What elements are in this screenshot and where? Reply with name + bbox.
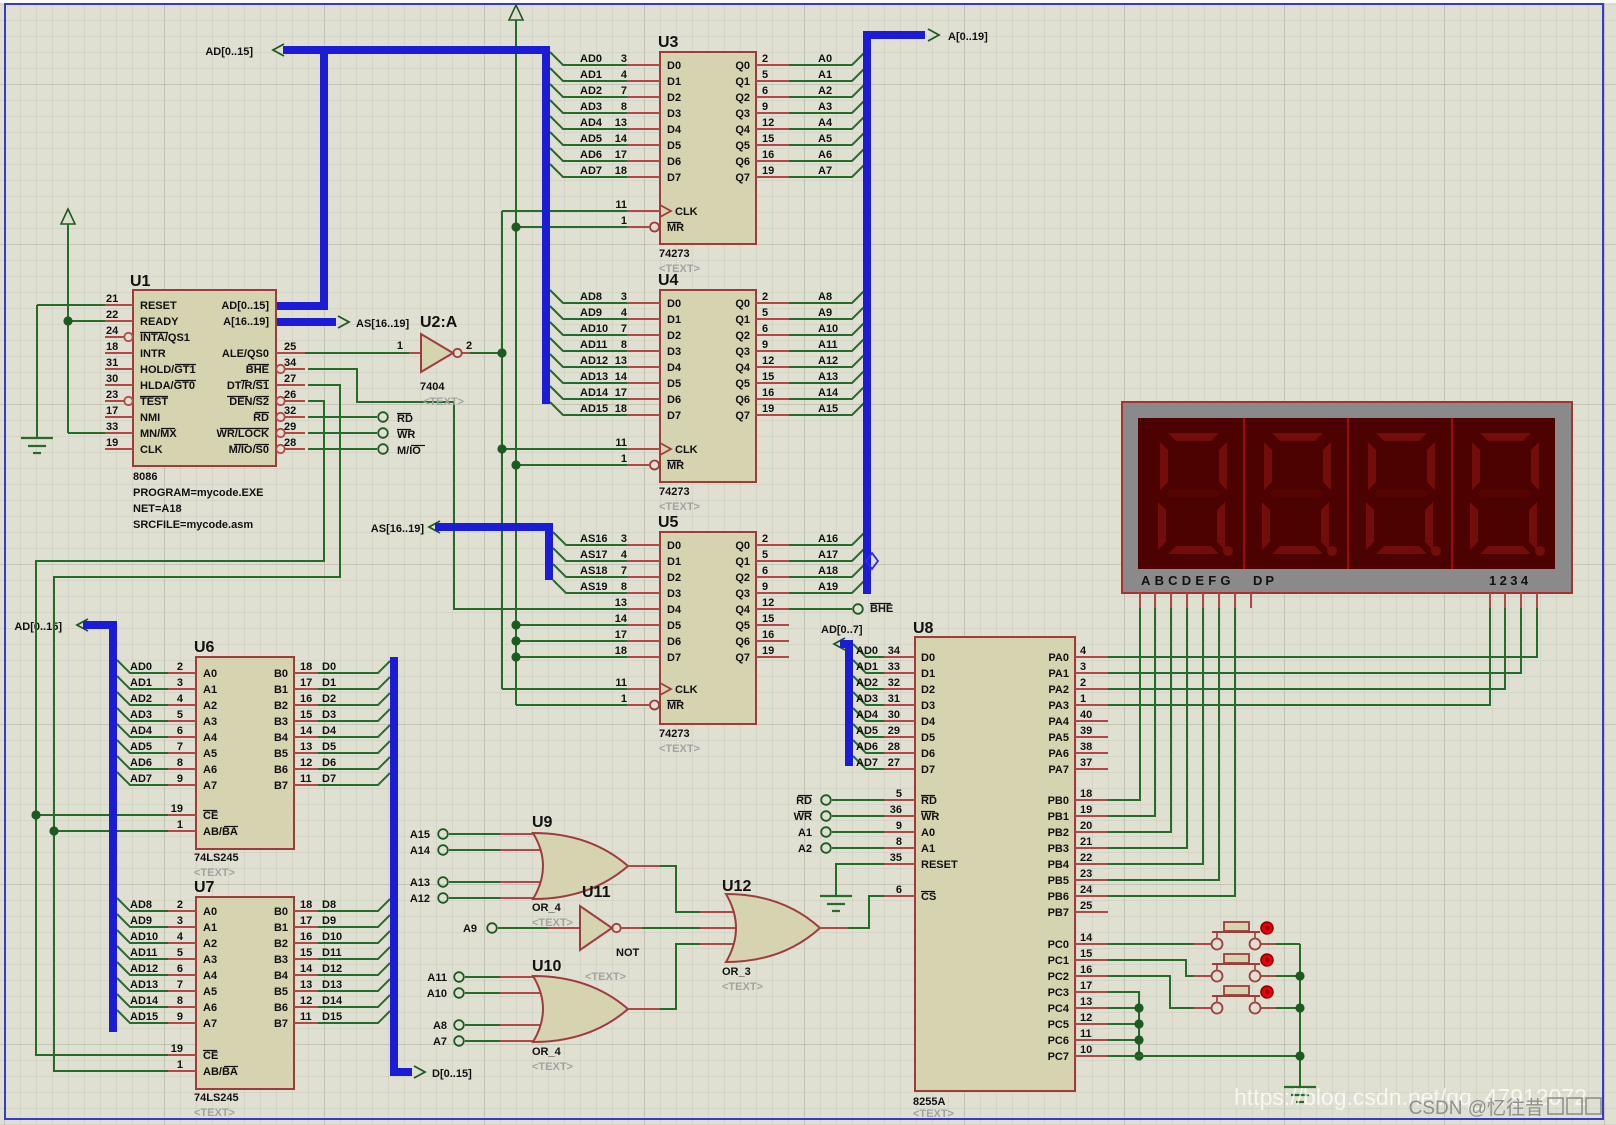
terminal A7 [433, 1036, 464, 1048]
svg-text:D3: D3 [921, 700, 935, 712]
svg-text:NET=A18: NET=A18 [133, 503, 182, 515]
svg-text:D2: D2 [667, 572, 681, 584]
svg-text:19: 19 [106, 437, 118, 449]
button SW3 [1212, 986, 1274, 1014]
svg-text:A16: A16 [818, 533, 838, 545]
svg-text:5: 5 [762, 69, 768, 81]
svg-text:U10: U10 [532, 958, 561, 975]
ground at button rail [1284, 1087, 1316, 1102]
svg-text:U2:A: U2:A [420, 314, 458, 331]
svg-text:9: 9 [762, 339, 768, 351]
svg-text:D7: D7 [667, 172, 681, 184]
svg-text:22: 22 [106, 309, 118, 321]
svg-text:31: 31 [106, 357, 118, 369]
svg-text:7: 7 [177, 979, 183, 991]
svg-text:5: 5 [896, 788, 902, 800]
svg-text:Q3: Q3 [735, 108, 750, 120]
svg-text:D0: D0 [667, 298, 681, 310]
svg-text:<TEXT>: <TEXT> [423, 396, 464, 408]
svg-text:3: 3 [621, 53, 627, 65]
node bus-entry marker near A17 [866, 553, 878, 569]
svg-text:D8: D8 [322, 899, 336, 911]
svg-text:PB3: PB3 [1048, 843, 1069, 855]
terminal A9 [463, 923, 497, 935]
svg-text:37: 37 [1080, 757, 1092, 769]
svg-text:B6: B6 [274, 1002, 288, 1014]
svg-text:11: 11 [1080, 1028, 1092, 1040]
processor U1 8086 [105, 273, 305, 531]
svg-text:AD13: AD13 [130, 979, 158, 991]
wire U10 output to U12 input 3 [628, 944, 740, 1009]
svg-text:AD6: AD6 [130, 757, 152, 769]
latch U4 74273 [580, 272, 839, 513]
svg-text:AD0: AD0 [580, 53, 602, 65]
svg-text:D15: D15 [322, 1011, 342, 1023]
svg-text:B3: B3 [274, 954, 288, 966]
wire A7 to U10 [465, 1040, 500, 1042]
svg-text:D0: D0 [921, 652, 935, 664]
svg-text:8: 8 [896, 836, 902, 848]
svg-text:Q7: Q7 [735, 652, 750, 664]
terminal A2 near U8 [798, 843, 831, 855]
wire DT/R from U1 to U6/U7 AB/BA [49, 385, 340, 1071]
svg-text:D4: D4 [322, 725, 337, 737]
svg-text:A14: A14 [818, 387, 839, 399]
svg-text:OR_4: OR_4 [532, 902, 562, 914]
svg-text:RD: RD [921, 795, 937, 807]
svg-text:A[0..19]: A[0..19] [948, 31, 988, 43]
svg-text:Q2: Q2 [735, 330, 750, 342]
svg-text:4: 4 [177, 693, 184, 705]
svg-text:9: 9 [896, 820, 902, 832]
svg-text:RD: RD [253, 412, 269, 424]
svg-text:PA5: PA5 [1048, 732, 1069, 744]
svg-text:7: 7 [177, 741, 183, 753]
svg-text:14: 14 [300, 725, 313, 737]
svg-text:14: 14 [615, 613, 628, 625]
terminal A14 [410, 845, 448, 857]
svg-text:29: 29 [284, 421, 296, 433]
svg-text:19: 19 [762, 645, 774, 657]
svg-text:30: 30 [888, 709, 900, 721]
svg-text:A9: A9 [818, 307, 832, 319]
svg-text:13: 13 [1080, 996, 1092, 1008]
svg-text:1: 1 [621, 215, 627, 227]
svg-text:3: 3 [1080, 661, 1086, 673]
svg-text:PB5: PB5 [1048, 875, 1069, 887]
svg-text:U3: U3 [658, 34, 679, 51]
svg-text:32: 32 [888, 677, 900, 689]
svg-text:12: 12 [300, 757, 312, 769]
svg-text:<TEXT>: <TEXT> [722, 981, 763, 993]
wire U5 input taps from AS bus [553, 532, 627, 593]
svg-text:Q7: Q7 [735, 172, 750, 184]
wire U11 output to U12 input 2 [642, 927, 740, 929]
svg-text:21: 21 [1080, 836, 1092, 848]
svg-text:AD[0..7]: AD[0..7] [821, 624, 863, 636]
svg-text:D1: D1 [667, 314, 681, 326]
svg-text:AD2: AD2 [856, 677, 878, 689]
svg-text:A2: A2 [203, 938, 217, 950]
svg-text:AD4: AD4 [580, 117, 603, 129]
svg-text:74273: 74273 [659, 248, 690, 260]
wire display segment A-G to U8 PB0-PB6 [1108, 608, 1235, 896]
svg-text:74LS245: 74LS245 [194, 852, 239, 864]
bus overlay for crossings [83, 35, 925, 1072]
svg-text:A17: A17 [818, 549, 838, 561]
svg-text:Q2: Q2 [735, 92, 750, 104]
svg-text:1: 1 [621, 453, 627, 465]
transceiver U6 74LS245 [130, 639, 337, 879]
bus A[0..19] right vertical (latch outputs) [867, 29, 988, 594]
svg-text:<TEXT>: <TEXT> [194, 867, 235, 879]
svg-text:15: 15 [300, 947, 312, 959]
svg-text:AD7: AD7 [130, 773, 152, 785]
svg-text:AS[16..19]: AS[16..19] [356, 318, 410, 330]
svg-text:MR: MR [667, 222, 684, 234]
svg-text:D0: D0 [667, 540, 681, 552]
svg-text:Q5: Q5 [735, 620, 750, 632]
svg-text:B4: B4 [274, 732, 289, 744]
svg-text:RESET: RESET [140, 300, 177, 312]
svg-text:D4: D4 [667, 124, 682, 136]
svg-text:AD13: AD13 [580, 371, 608, 383]
svg-text:18: 18 [615, 645, 627, 657]
svg-text:18: 18 [300, 661, 312, 673]
svg-text:24: 24 [106, 325, 119, 337]
svg-text:U8: U8 [913, 620, 934, 637]
svg-text:25: 25 [1080, 900, 1092, 912]
svg-text:2: 2 [762, 53, 768, 65]
wire A9 to U11 [498, 927, 548, 929]
svg-text:PC4: PC4 [1048, 1003, 1070, 1015]
svg-text:1: 1 [621, 693, 627, 705]
svg-text:A11: A11 [818, 339, 838, 351]
svg-text:AD2: AD2 [580, 85, 602, 97]
svg-text:16: 16 [300, 693, 312, 705]
svg-text:D5: D5 [921, 732, 935, 744]
svg-text:<TEXT>: <TEXT> [585, 971, 626, 983]
svg-text:INTR: INTR [140, 348, 166, 360]
svg-text:4: 4 [621, 307, 628, 319]
svg-text:PROGRAM=mycode.EXE: PROGRAM=mycode.EXE [133, 487, 264, 499]
svg-text:A2: A2 [798, 843, 812, 855]
svg-text:17: 17 [300, 677, 312, 689]
svg-text:Q1: Q1 [735, 314, 750, 326]
wire U8 PC7 to button common and ground [1108, 1055, 1300, 1057]
svg-text:7: 7 [621, 323, 627, 335]
svg-text:AD6: AD6 [856, 741, 878, 753]
svg-text:B2: B2 [274, 938, 288, 950]
svg-text:16: 16 [762, 387, 774, 399]
svg-text:D1: D1 [667, 556, 681, 568]
svg-text:19: 19 [762, 403, 774, 415]
svg-text:PC0: PC0 [1048, 939, 1069, 951]
svg-text:AD11: AD11 [130, 947, 158, 959]
svg-text:TEST: TEST [140, 396, 168, 408]
svg-text:11: 11 [615, 199, 627, 211]
svg-text:28: 28 [888, 741, 900, 753]
svg-text:D0: D0 [667, 60, 681, 72]
svg-text:RESET: RESET [921, 859, 958, 871]
svg-text:AD15: AD15 [580, 403, 608, 415]
svg-text:WR: WR [921, 811, 939, 823]
svg-text:Q5: Q5 [735, 140, 750, 152]
svg-text:A0: A0 [203, 906, 217, 918]
svg-text:2: 2 [177, 661, 183, 673]
bus AS[16..19] to U5 inputs [371, 521, 549, 580]
svg-text:A7: A7 [433, 1036, 447, 1048]
svg-text:A19: A19 [818, 581, 838, 593]
svg-text:4: 4 [621, 69, 628, 81]
wire U5 output taps to A bus [789, 533, 864, 593]
wire U1 RESET to ground [37, 305, 105, 438]
svg-text:1: 1 [1080, 693, 1086, 705]
ground at U1 RESET [21, 438, 53, 453]
terminal RD near U8 [796, 795, 831, 807]
svg-text:PB2: PB2 [1048, 827, 1069, 839]
svg-text:21: 21 [106, 293, 118, 305]
svg-text:AD11: AD11 [580, 339, 608, 351]
svg-text:AD5: AD5 [580, 133, 602, 145]
svg-text:23: 23 [1080, 868, 1092, 880]
svg-text:13: 13 [300, 979, 312, 991]
svg-text:D6: D6 [322, 757, 336, 769]
wire CLK net (U2:A output to latch CLK pins) [470, 211, 627, 689]
svg-text:1: 1 [397, 340, 403, 352]
svg-text:A7: A7 [203, 1018, 217, 1030]
svg-text:5: 5 [762, 307, 768, 319]
svg-text:14: 14 [615, 133, 628, 145]
svg-text:NMI: NMI [140, 412, 160, 424]
svg-text:BHE: BHE [870, 603, 893, 615]
svg-text:PC3: PC3 [1048, 987, 1069, 999]
wire U8 PC3-PC6 common tie [1108, 992, 1144, 1061]
svg-text:D9: D9 [322, 915, 336, 927]
svg-text:9: 9 [177, 1011, 183, 1023]
svg-text:14: 14 [300, 963, 313, 975]
terminal A11 [427, 972, 463, 984]
svg-text:D5: D5 [667, 620, 681, 632]
svg-text:D11: D11 [322, 947, 342, 959]
svg-text:Q0: Q0 [735, 540, 750, 552]
terminal A1 near U8 [798, 827, 831, 839]
wire U9 output to U12 input 1 [628, 866, 740, 912]
svg-text:U1: U1 [130, 273, 151, 290]
svg-text:A1: A1 [798, 827, 812, 839]
svg-text:PB1: PB1 [1048, 811, 1069, 823]
svg-text:14: 14 [1080, 932, 1093, 944]
svg-text:D0: D0 [322, 661, 336, 673]
svg-text:15: 15 [762, 133, 774, 145]
svg-text:16: 16 [762, 629, 774, 641]
svg-text:16: 16 [762, 149, 774, 161]
svg-text:A10: A10 [818, 323, 838, 335]
svg-text:74273: 74273 [659, 728, 690, 740]
svg-text:PA1: PA1 [1048, 668, 1069, 680]
svg-text:17: 17 [106, 405, 118, 417]
svg-text:D2: D2 [667, 330, 681, 342]
terminal A15 [410, 829, 448, 841]
svg-text:CE: CE [203, 810, 218, 822]
svg-text:U11: U11 [582, 884, 611, 901]
svg-text:<TEXT>: <TEXT> [913, 1108, 954, 1120]
svg-text:NOT: NOT [616, 947, 640, 959]
svg-text:3: 3 [621, 533, 627, 545]
svg-text:CLK: CLK [140, 444, 163, 456]
svg-text:A14: A14 [410, 845, 431, 857]
svg-text:Q7: Q7 [735, 410, 750, 422]
wire U4 output taps to A bus [789, 291, 864, 415]
svg-text:AD9: AD9 [580, 307, 602, 319]
svg-text:Q3: Q3 [735, 588, 750, 600]
svg-text:A[16..19]: A[16..19] [223, 316, 269, 328]
svg-text:AD4: AD4 [856, 709, 879, 721]
svg-text:B7: B7 [274, 780, 288, 792]
svg-text:PA2: PA2 [1048, 684, 1069, 696]
wire A10 to U10 [465, 992, 500, 994]
svg-text:19: 19 [171, 803, 183, 815]
svg-text:AD7: AD7 [580, 165, 602, 177]
svg-text:U12: U12 [722, 878, 751, 895]
terminal M/IO near U1 [378, 444, 425, 457]
svg-text:D4: D4 [921, 716, 936, 728]
svg-text:AD3: AD3 [580, 101, 602, 113]
svg-text:PB0: PB0 [1048, 795, 1069, 807]
svg-text:34: 34 [284, 357, 297, 369]
svg-text:13: 13 [615, 117, 627, 129]
svg-text:A4: A4 [818, 117, 833, 129]
svg-text:D1: D1 [322, 677, 336, 689]
svg-text:D3: D3 [322, 709, 336, 721]
svg-text:D10: D10 [322, 931, 342, 943]
svg-text:AD12: AD12 [130, 963, 158, 975]
bus A[16..19] stub from U1 [277, 316, 410, 330]
svg-text:D5: D5 [667, 378, 681, 390]
svg-text:PC7: PC7 [1048, 1051, 1069, 1063]
svg-text:AD[0..15]: AD[0..15] [221, 300, 269, 312]
svg-text:<TEXT>: <TEXT> [659, 743, 700, 755]
wire U6 input taps from AD bus [117, 660, 168, 785]
svg-text:13: 13 [615, 597, 627, 609]
svg-text:8: 8 [621, 339, 627, 351]
svg-text:A11: A11 [427, 972, 447, 984]
svg-text:Q0: Q0 [735, 298, 750, 310]
svg-text:WR: WR [794, 811, 812, 823]
svg-text:B1: B1 [274, 922, 288, 934]
wire U5 Q4 to BHE terminal [789, 608, 852, 610]
svg-text:A6: A6 [818, 149, 832, 161]
inverter U2:A 7404 [397, 314, 472, 408]
svg-text:1234: 1234 [1489, 573, 1532, 588]
svg-text:36: 36 [890, 804, 902, 816]
svg-text:5: 5 [762, 549, 768, 561]
svg-text:AD12: AD12 [580, 355, 608, 367]
svg-text:WR/LOCK: WR/LOCK [216, 428, 269, 440]
svg-text:D4: D4 [667, 604, 682, 616]
svg-text:8: 8 [621, 101, 627, 113]
svg-text:18: 18 [615, 165, 627, 177]
svg-text:5: 5 [177, 947, 183, 959]
svg-text:RD: RD [796, 795, 812, 807]
svg-text:AD[0..15]: AD[0..15] [205, 46, 253, 58]
svg-text:B3: B3 [274, 716, 288, 728]
svg-text:BHE: BHE [246, 364, 269, 376]
svg-text:A13: A13 [410, 877, 430, 889]
svg-text:38: 38 [1080, 741, 1092, 753]
svg-text:D[0..15]: D[0..15] [432, 1068, 472, 1080]
svg-text:9: 9 [762, 101, 768, 113]
svg-text:6: 6 [896, 884, 902, 896]
svg-text:A15: A15 [410, 829, 430, 841]
wire U3 input taps from AD bus [550, 52, 627, 177]
svg-text:AB/BA: AB/BA [203, 1066, 238, 1078]
svg-text:D6: D6 [667, 636, 681, 648]
wire A15 to U9 [449, 833, 500, 835]
bus AD[0..15] left (to U6/U7 inputs) [14, 619, 113, 1032]
svg-text:A9: A9 [463, 923, 477, 935]
svg-text:A8: A8 [433, 1020, 447, 1032]
svg-text:6: 6 [762, 85, 768, 97]
svg-text:A7: A7 [818, 165, 832, 177]
svg-text:4: 4 [177, 931, 184, 943]
svg-text:CS: CS [921, 891, 936, 903]
svg-text:D1: D1 [921, 668, 935, 680]
svg-text:17: 17 [300, 915, 312, 927]
wire DEN/S2 from U1 to U6/U7 CE [31, 401, 324, 1055]
svg-text:D6: D6 [667, 394, 681, 406]
wire U1 WR to terminal [308, 432, 377, 434]
svg-text:1: 1 [177, 819, 183, 831]
button SW2 [1212, 954, 1274, 982]
svg-text:A10: A10 [427, 988, 447, 1000]
svg-text:Q2: Q2 [735, 572, 750, 584]
svg-text:13: 13 [300, 741, 312, 753]
svg-text:PA7: PA7 [1048, 764, 1069, 776]
svg-text:AD9: AD9 [130, 915, 152, 927]
svg-text:D3: D3 [667, 346, 681, 358]
svg-text:AS18: AS18 [580, 565, 608, 577]
svg-text:MR: MR [667, 460, 684, 472]
svg-text:20: 20 [1080, 820, 1092, 832]
svg-text:17: 17 [615, 149, 627, 161]
svg-text:Q4: Q4 [735, 604, 751, 616]
svg-text:A2: A2 [203, 700, 217, 712]
svg-text:AS17: AS17 [580, 549, 608, 561]
svg-text:40: 40 [1080, 709, 1092, 721]
svg-text:OR_3: OR_3 [722, 966, 751, 978]
svg-text:27: 27 [888, 757, 900, 769]
svg-text:74273: 74273 [659, 486, 690, 498]
svg-text:B2: B2 [274, 700, 288, 712]
svg-text:A18: A18 [818, 565, 838, 577]
svg-text:D14: D14 [322, 995, 343, 1007]
svg-text:M/IO/S0: M/IO/S0 [229, 444, 269, 456]
svg-text:A3: A3 [203, 716, 217, 728]
wire BHE from U1 to U5 D4 [308, 369, 627, 609]
svg-text:A2: A2 [818, 85, 832, 97]
svg-text:B1: B1 [274, 684, 288, 696]
svg-text:AB/BA: AB/BA [203, 826, 238, 838]
svg-text:3: 3 [621, 291, 627, 303]
svg-text:D2: D2 [921, 684, 935, 696]
wire U4 input taps from AD bus [550, 290, 627, 415]
svg-text:33: 33 [106, 421, 118, 433]
svg-text:8: 8 [177, 995, 183, 1007]
bus AD[0..15] top (U1 AD to U3/U4 inputs) [205, 44, 546, 404]
svg-text:B6: B6 [274, 764, 288, 776]
svg-text:Q4: Q4 [735, 124, 751, 136]
